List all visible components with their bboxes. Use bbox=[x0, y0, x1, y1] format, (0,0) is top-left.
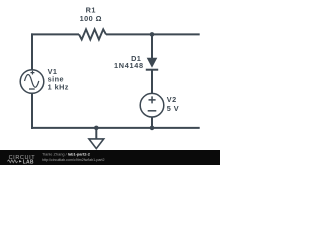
node junction top (R1/D1) bbox=[150, 32, 155, 37]
CircuitLab logo squiggle bbox=[7, 160, 17, 163]
svg-text:V2: V2 bbox=[167, 95, 177, 104]
ground bbox=[89, 139, 104, 149]
wire ground stub bbox=[95, 128, 97, 139]
wire diode cathode to V2 bbox=[151, 70, 153, 94]
diode D1 bbox=[146, 58, 158, 70]
wire top-left horizontal bbox=[31, 33, 79, 35]
wire left vertical lower bbox=[31, 93, 33, 129]
wire bottom horizontal bbox=[31, 127, 200, 129]
svg-text:1N4148: 1N4148 bbox=[114, 61, 144, 70]
voltage source V2 (DC) bbox=[140, 93, 164, 117]
svg-text:5 V: 5 V bbox=[167, 104, 179, 113]
wire top-right horizontal bbox=[106, 33, 200, 35]
watermark bar bbox=[0, 150, 220, 165]
wire V2 bottom stub bbox=[151, 117, 153, 128]
node junction bottom (V2) bbox=[150, 126, 155, 131]
CircuitLab logo diode mark bbox=[19, 160, 22, 162]
voltage source V1 (sine) bbox=[20, 70, 44, 94]
wire left vertical upper bbox=[31, 33, 33, 69]
svg-text:100 Ω: 100 Ω bbox=[80, 14, 102, 23]
wire diode anode stub bbox=[151, 34, 153, 58]
resistor R1 zigzag bbox=[79, 29, 106, 39]
node junction ground bbox=[94, 126, 99, 131]
svg-text:1 kHz: 1 kHz bbox=[48, 83, 69, 92]
